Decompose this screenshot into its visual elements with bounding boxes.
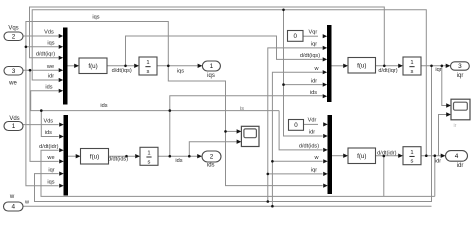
svg-text:3: 3 [458, 63, 462, 70]
svg-text:1: 1 [210, 63, 214, 70]
svg-text:d/dt(ids): d/dt(ids) [108, 157, 128, 163]
svg-text:4: 4 [11, 204, 15, 211]
svg-text:2: 2 [12, 33, 16, 40]
svg-text:w: w [9, 194, 15, 200]
svg-text:Vdr: Vdr [308, 118, 317, 124]
svg-text:d/dt(iqs): d/dt(iqs) [112, 68, 132, 74]
svg-text:0: 0 [293, 33, 297, 40]
svg-text:Vds: Vds [43, 118, 53, 124]
svg-text:f(u): f(u) [357, 62, 366, 69]
svg-text:iqs: iqs [207, 73, 215, 79]
svg-text:ids: ids [207, 163, 215, 169]
svg-text:iqr: iqr [311, 42, 317, 48]
svg-text:d/dt(iqs): d/dt(iqs) [300, 53, 320, 59]
svg-text:2: 2 [210, 154, 214, 161]
svg-text:idr: idr [309, 130, 315, 136]
svg-text:idr: idr [435, 158, 441, 164]
svg-text:1: 1 [12, 123, 16, 130]
svg-text:ids: ids [45, 85, 52, 91]
svg-text:we: we [46, 64, 54, 70]
svg-text:iqs: iqs [47, 41, 54, 47]
svg-text:1: 1 [410, 60, 413, 66]
svg-text:f(u): f(u) [88, 63, 97, 70]
svg-text:Vds: Vds [44, 30, 54, 36]
svg-text:d/dt(idr): d/dt(idr) [377, 150, 396, 156]
svg-text:1: 1 [147, 151, 150, 157]
svg-text:s: s [147, 69, 150, 75]
svg-text:d/dt(idr): d/dt(idr) [39, 144, 58, 150]
svg-text:s: s [411, 159, 414, 165]
svg-text:Vds: Vds [9, 116, 19, 122]
svg-text:Vqs: Vqs [8, 26, 18, 32]
svg-text:idr: idr [311, 78, 317, 84]
svg-text:idr: idr [457, 163, 464, 169]
svg-text:iqr: iqr [311, 168, 317, 174]
svg-text:d/dt(iqr): d/dt(iqr) [378, 68, 397, 74]
svg-text:ids: ids [175, 158, 182, 164]
svg-text:d/dt(iqr): d/dt(iqr) [36, 52, 55, 58]
svg-text:1: 1 [146, 60, 149, 66]
svg-text:iqs: iqs [47, 179, 54, 185]
svg-text:iqr: iqr [457, 73, 464, 79]
svg-text:idr: idr [48, 74, 54, 80]
svg-text:s: s [148, 159, 151, 165]
svg-text:s: s [411, 69, 414, 75]
svg-text:ids: ids [310, 90, 317, 96]
svg-text:f(u): f(u) [357, 153, 366, 160]
svg-text:we: we [8, 81, 17, 87]
svg-text:ir: ir [454, 123, 457, 129]
svg-text:ids: ids [100, 103, 107, 109]
svg-text:4: 4 [455, 153, 459, 160]
svg-text:0: 0 [294, 122, 298, 129]
svg-text:3: 3 [12, 68, 16, 75]
svg-text:d/dt(ids): d/dt(ids) [299, 144, 319, 150]
svg-text:iqr: iqr [435, 67, 441, 73]
svg-text:Vqr: Vqr [309, 29, 318, 35]
svg-text:is: is [240, 106, 244, 112]
svg-text:iqr: iqr [48, 167, 54, 173]
svg-text:iqs: iqs [177, 68, 184, 74]
svg-text:ids: ids [45, 130, 52, 136]
svg-text:we: we [46, 155, 54, 161]
svg-text:iqs: iqs [92, 14, 99, 20]
svg-text:f(u): f(u) [90, 153, 99, 160]
svg-text:1: 1 [410, 150, 413, 156]
